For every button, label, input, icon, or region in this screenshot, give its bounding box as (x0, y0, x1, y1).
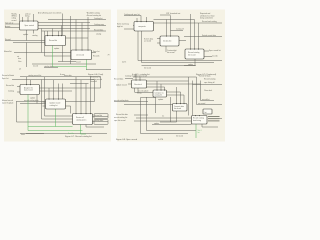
svg-text:Clear deck: Clear deck (134, 84, 142, 86)
svg-text:• Sorted list data: • Sorted list data (198, 75, 210, 78)
svg-text:composite: composite (138, 25, 146, 28)
svg-text:no record: no record (198, 102, 205, 105)
svg-text:record catalog list: record catalog list (114, 116, 128, 119)
svg-text:catalog: catalog (32, 34, 38, 37)
svg-text:Record: Record (5, 38, 11, 41)
svg-text:Record all kinds: Record all kinds (2, 74, 14, 77)
svg-text:data record: data record (24, 89, 33, 92)
svg-text:Catalog: Catalog (8, 90, 14, 93)
svg-text:Satellite: Satellite (68, 132, 74, 135)
svg-text:catalog list: catalog list (50, 104, 59, 107)
svg-text:as record: as record (144, 40, 151, 43)
svg-text:rec: rec (162, 116, 164, 118)
svg-text:list record: list record (167, 51, 174, 54)
svg-text:record: record (76, 61, 81, 63)
svg-text:catalog record list: catalog record list (28, 74, 42, 77)
svg-text:spec list record: spec list record (114, 119, 125, 122)
svg-text:Figure 4-7. Record catalog lis: Figure 4-7. Record catalog list (65, 135, 92, 138)
svg-text:• Record catalog list: • Record catalog list (86, 14, 101, 17)
svg-text:update: update (30, 97, 35, 100)
svg-text:Record catalog: Record catalog (204, 78, 215, 81)
svg-text:Record list: Record list (6, 84, 15, 87)
svg-text:record: record (12, 19, 17, 22)
svg-text:catalog data: catalog data (44, 65, 53, 68)
svg-text:Spec list: Spec list (93, 50, 100, 53)
svg-text:Catalog list: Catalog list (94, 17, 103, 20)
svg-text:shor: shor (18, 58, 22, 60)
svg-text:Record list: Record list (49, 39, 58, 42)
svg-text:listing: listing (25, 15, 29, 18)
svg-text:update: update (23, 33, 28, 36)
svg-text:update: update (158, 98, 163, 101)
svg-text:report if update: report if update (2, 101, 13, 104)
svg-text:catalog specs: catalog specs (76, 118, 86, 121)
svg-text:Clou: Clou (18, 61, 21, 63)
svg-text:Records: Records (93, 55, 99, 58)
svg-text:digit list: digit list (117, 25, 123, 28)
svg-text:listing: listing (137, 92, 141, 95)
svg-text:record list: record list (202, 98, 210, 101)
svg-text:CRT formatted text: CRT formatted text (166, 12, 181, 15)
svg-text:Record list: Record list (94, 114, 103, 117)
svg-text:Spec control: Spec control (25, 24, 35, 27)
svg-text:Spec list: Spec list (2, 77, 9, 80)
svg-text:records: records (212, 54, 218, 57)
svg-text:Avionic: Avionic (5, 25, 11, 28)
svg-text:data listing: data listing (193, 119, 201, 122)
svg-text:update: update (54, 47, 59, 50)
svg-text:A list affecting each record i: A list affecting each record item (38, 12, 62, 15)
svg-text:Spec record list: Spec record list (209, 49, 221, 52)
svg-text:Record list data: Record list data (116, 113, 128, 116)
svg-text:Clear deck: Clear deck (204, 89, 212, 92)
svg-text:Record data: Record data (114, 77, 123, 80)
svg-text:Record data: Record data (94, 29, 103, 32)
svg-text:more data: more data (64, 74, 72, 77)
svg-text:79: 79 (108, 55, 110, 57)
svg-text:catalog data: catalog data (94, 119, 103, 122)
svg-text:Record and catalog: Record and catalog (202, 20, 217, 23)
svg-text:Taxi rate ar: Taxi rate ar (5, 21, 14, 24)
svg-text:record catalog data: record catalog data (114, 99, 129, 102)
svg-text:list record: list record (188, 53, 195, 56)
svg-text:record: record (33, 65, 38, 68)
svg-text:4-xxx: 4-xxx (21, 134, 25, 136)
svg-text:List record: List record (76, 53, 84, 56)
svg-text:Figure 4-8. Spec record: Figure 4-8. Spec record (116, 139, 137, 141)
svg-text:Catalog and spec list: Catalog and spec list (124, 13, 140, 16)
svg-text:being sorted item: being sorted item (200, 17, 214, 20)
svg-text:Catalog copy: Catalog copy (94, 23, 104, 26)
svg-text:4-176: 4-176 (158, 139, 164, 141)
svg-text:spec listing all: spec listing all (204, 81, 215, 84)
svg-text:Update record: Update record (116, 83, 127, 86)
svg-text:• item list: • item list (90, 80, 97, 83)
svg-text:Sorted record data: Sorted record data (202, 34, 216, 37)
svg-text:4-175: 4-175 (122, 62, 126, 64)
